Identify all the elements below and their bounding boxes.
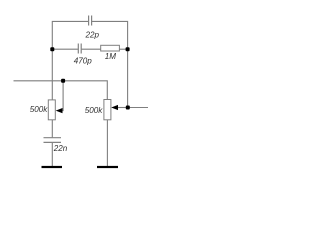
- arrowhead right pot wiper: [111, 105, 118, 110]
- capacitor C 22n: [44, 138, 62, 143]
- wire 22n to ground: [51, 143, 53, 166]
- junction dot row2 left: [50, 47, 54, 51]
- potentiometer body right 500k: [104, 100, 111, 120]
- svg-text:500k: 500k: [85, 106, 104, 115]
- wire top-left segment: [52, 21, 88, 100]
- svg-text:500k: 500k: [30, 105, 49, 114]
- junction dot input/wiper: [61, 79, 65, 83]
- potentiometer body left 500k: [48, 100, 55, 120]
- wire left pot bottom lead: [51, 120, 53, 138]
- svg-text:470p: 470p: [74, 56, 93, 65]
- wire output stub: [128, 107, 148, 109]
- svg-text:22n: 22n: [53, 144, 68, 153]
- svg-text:1M: 1M: [105, 52, 117, 61]
- wire row2 mid: [81, 48, 100, 50]
- wire row2 left: [52, 48, 78, 50]
- wire row2 right: [119, 48, 127, 50]
- capacitor C 470p: [78, 44, 81, 54]
- junction dot right wiper/output: [126, 106, 130, 110]
- wire left wiper: [59, 81, 63, 111]
- arrowhead left pot wiper: [56, 108, 63, 113]
- wire input: [14, 81, 108, 100]
- svg-text:22p: 22p: [85, 30, 100, 39]
- ground right: [97, 166, 118, 168]
- wire top-right segment: [92, 21, 128, 107]
- wire right wiper: [115, 107, 128, 109]
- junction dot row2 right: [126, 47, 130, 51]
- wire right pot bottom lead: [106, 120, 108, 166]
- resistor R 1M: [101, 45, 120, 51]
- ground left: [42, 166, 63, 168]
- capacitor C 22p: [89, 16, 92, 26]
